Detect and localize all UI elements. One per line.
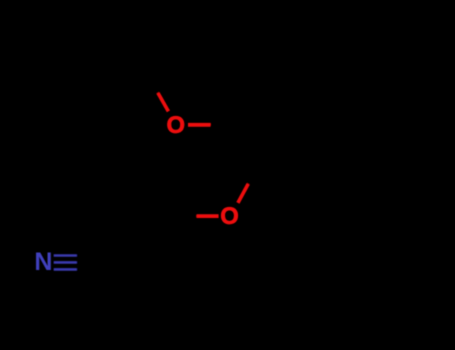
- svg-text:O: O: [220, 203, 239, 230]
- svg-text:O: O: [166, 112, 185, 139]
- svg-text:N: N: [34, 248, 52, 276]
